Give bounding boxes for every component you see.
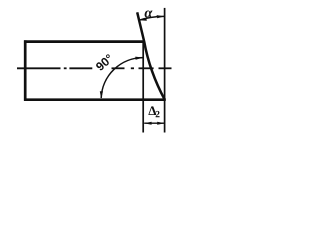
part outline: bottom edge (24, 98, 166, 101)
label alpha (145, 10, 153, 17)
arrowhead: 90 arc lower end, pointing down (100, 91, 103, 99)
centerline (dash-dot axis) (17, 67, 172, 69)
part outline: top edge (24, 40, 144, 43)
label Delta (148, 106, 156, 115)
extension line V2 vertical reference (164, 8, 166, 133)
part outline: left edge (24, 40, 27, 101)
arrowhead: alpha arc right end, pointing at V2 (157, 15, 165, 18)
arrowhead: delta2 right, pointing right (157, 122, 165, 125)
arrowhead: delta2 left, pointing left (144, 122, 152, 125)
arrowhead: 90 arc upper end, pointing right at V1 (135, 57, 143, 60)
part outline: slanted face (137, 12, 165, 100)
extension line V1 from top-right corner down (142, 42, 144, 133)
label sub2 (156, 111, 160, 117)
90-degree angle arc (101, 58, 143, 98)
label 90deg (95, 54, 114, 72)
arrowhead: alpha arc left end, pointing at slant (139, 18, 147, 21)
alpha dimension arc (139, 16, 165, 20)
delta-2 dimension line (144, 122, 164, 124)
